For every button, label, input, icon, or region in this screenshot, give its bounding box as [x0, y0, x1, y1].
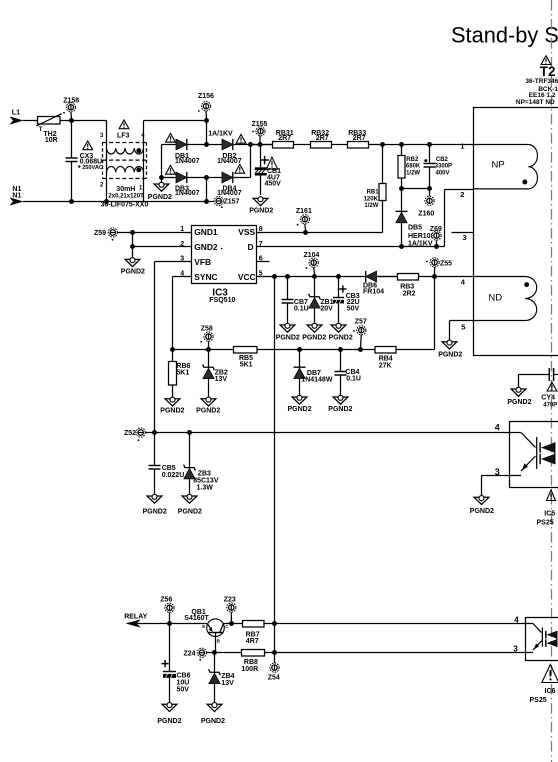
IC3 pin numbers	[180, 226, 262, 277]
resistor RB6 5K1	[169, 350, 177, 399]
label CB7 0.1U	[294, 299, 309, 312]
svg-text:Z104: Z104	[304, 252, 320, 259]
wire AC1 drop to bridge	[206, 121, 208, 145]
resistor RB2 680K 1/2W	[398, 145, 405, 189]
wire emitter	[170, 623, 208, 625]
svg-text:2x0.21x120T: 2x0.21x120T	[108, 193, 144, 199]
node RB1 tap	[380, 142, 385, 147]
ground PGND2 (ZB3)	[178, 494, 202, 515]
svg-text:ZB4: ZB4	[221, 673, 234, 680]
wire AC2 drop	[206, 178, 208, 202]
svg-text:CB2: CB2	[436, 157, 449, 163]
svg-text:450V: 450V	[265, 181, 282, 188]
IC6 LED	[546, 631, 557, 647]
label DB2 1N4007	[217, 153, 242, 165]
svg-text:RB8: RB8	[244, 659, 258, 666]
test point Z57	[353, 326, 366, 348]
resistor RB8 100R	[241, 650, 525, 673]
svg-text:VFB: VFB	[194, 257, 211, 267]
svg-text:Z23: Z23	[224, 596, 236, 603]
test point Z24	[197, 648, 206, 657]
svg-text:PGND2: PGND2	[329, 334, 353, 341]
node DB7 top	[297, 347, 302, 352]
svg-text:PS25: PS25	[537, 520, 554, 527]
input terminal L1 arrow	[10, 116, 24, 124]
ground PGND2 (CB4)	[328, 395, 352, 413]
svg-text:120K: 120K	[364, 196, 379, 202]
resistor RB3 2R2	[377, 274, 474, 281]
svg-text:PGND2: PGND2	[201, 718, 225, 725]
node Z23	[229, 621, 234, 626]
warning triangle CB1	[266, 157, 277, 169]
pin2 GND2 wire	[133, 246, 192, 248]
svg-text:NP=148T ND: NP=148T ND	[516, 99, 555, 106]
bottom AC wire N1 to Z157	[23, 201, 214, 203]
test point Z54	[270, 653, 279, 673]
svg-text:Z155: Z155	[252, 121, 268, 128]
label RB2 680K 1/2W	[406, 157, 421, 177]
svg-text:1N4007: 1N4007	[217, 190, 242, 197]
svg-text:13V: 13V	[221, 680, 234, 687]
wire L1 to TH2	[23, 120, 38, 122]
resistor RB33 2R7	[348, 130, 369, 148]
zener ZB1 20V	[309, 277, 321, 326]
ground PGND2 (IC5 pin3)	[470, 496, 494, 515]
label CB2 3300P 400V	[435, 157, 452, 177]
node at Z158/CX3 tap	[69, 118, 74, 123]
svg-text:PGND2: PGND2	[470, 508, 494, 515]
svg-text:Z156: Z156	[198, 93, 214, 100]
zener ZB4 13V	[209, 653, 221, 705]
label ZB1 20V	[320, 299, 333, 312]
svg-text:36-TRF346-: 36-TRF346-	[525, 78, 558, 85]
LF3 right rail (pins 4-1)	[144, 121, 207, 202]
svg-text:50V: 50V	[347, 305, 360, 312]
svg-text:Z160: Z160	[418, 211, 434, 218]
diode DB7 1N4148W	[294, 350, 306, 398]
warning triangle IC6	[542, 665, 558, 683]
svg-text:PGND2: PGND2	[143, 508, 167, 515]
node on N wire	[204, 199, 209, 204]
node VCC-relay riser	[272, 274, 277, 279]
capacitor CB6 10U 50V electrolytic	[163, 624, 176, 705]
node RB2 tap	[399, 142, 404, 147]
svg-text:PGND2: PGND2	[276, 334, 300, 341]
ground PGND2 (ZB1)	[302, 323, 326, 341]
svg-text:FSQ510: FSQ510	[209, 297, 235, 304]
node AC1 top	[204, 118, 209, 123]
node DB5 anode	[399, 244, 404, 249]
transistor QB1 S4160T	[202, 619, 229, 653]
node VCC riser on RB7 line	[272, 621, 277, 626]
svg-text:3: 3	[513, 644, 518, 653]
LF3 top winding	[107, 148, 144, 154]
ground PGND2 (IC3 GND)	[121, 258, 145, 276]
svg-text:2R2: 2R2	[403, 290, 416, 297]
svg-text:HER108: HER108	[408, 233, 435, 240]
NP winding	[474, 145, 538, 189]
resistor RB1 120K 1/2W (startup)	[379, 145, 386, 233]
warning triangle DB4	[235, 164, 245, 173]
node bridge plus	[248, 142, 253, 147]
svg-text:CY4: CY4	[541, 395, 555, 402]
svg-text:1N4007: 1N4007	[217, 158, 242, 165]
svg-text:Z157: Z157	[224, 199, 240, 206]
node bridge top center	[204, 142, 209, 147]
node CB1 tap	[258, 142, 263, 147]
zener ZB2 13V	[203, 350, 215, 399]
svg-text:PGND2: PGND2	[249, 207, 273, 214]
svg-text:4: 4	[495, 422, 500, 432]
svg-text:Z57: Z57	[355, 319, 367, 326]
label CB1 4U7 450V	[265, 168, 282, 188]
svg-text:36-LIF075-XX0: 36-LIF075-XX0	[101, 202, 149, 209]
node CB4 top	[338, 347, 343, 352]
capacitor CX3	[66, 158, 78, 202]
svg-text:1A/1KV: 1A/1KV	[208, 130, 233, 137]
label DB1 1N4007	[175, 153, 200, 165]
label CB6 10U 50V	[177, 672, 191, 693]
label RB1 120K 1/2W	[364, 190, 380, 210]
diode DB6 FR104	[366, 271, 377, 282]
svg-text:T2: T2	[540, 64, 556, 79]
node bridge minus	[159, 175, 164, 180]
node CX3 bottom	[69, 199, 74, 204]
label CB5 0.022U	[162, 465, 185, 479]
collector wire	[223, 623, 242, 625]
RELAY output arrow	[126, 619, 170, 627]
svg-text:T: T	[39, 127, 43, 133]
label DB4 1N4007	[217, 185, 242, 197]
label IC6 PS2561	[530, 688, 556, 704]
test point Z158	[63, 103, 75, 119]
svg-text:Stand-by Sec: Stand-by Sec	[451, 23, 558, 48]
thermistor TH2	[36, 114, 62, 133]
svg-text:D: D	[248, 242, 254, 252]
pin5 VCC wire	[257, 276, 398, 278]
svg-text:Z158: Z158	[63, 98, 79, 105]
label RB3 2R2	[400, 284, 415, 298]
ground PGND2 (ZB4)	[201, 703, 225, 725]
capacitor CB3 22U 50V electrolytic	[333, 277, 344, 326]
label DB7 1N4148W	[301, 370, 333, 384]
node bridge bottom center	[204, 175, 209, 180]
wire GND tie vertical	[132, 233, 134, 260]
svg-text:50V: 50V	[177, 686, 190, 693]
svg-text:PGND2: PGND2	[121, 268, 145, 275]
svg-text:3300P: 3300P	[435, 164, 452, 170]
page boundary dash-dot line	[551, 0, 553, 762]
label DB5 HER108 1A/1KV	[408, 225, 435, 248]
svg-text:Z55: Z55	[440, 260, 452, 267]
wire Z59 to pin1 GND1	[117, 232, 191, 234]
ground PGND2 (CB3)	[329, 323, 353, 341]
capacitor CB2 3300P 400V	[424, 145, 436, 189]
svg-text:1/2W: 1/2W	[364, 203, 378, 209]
svg-text:DB5: DB5	[408, 225, 422, 232]
capacitor CB4 0.1U	[335, 350, 347, 398]
svg-text:1.3W: 1.3W	[197, 485, 214, 492]
svg-text:PGND2: PGND2	[507, 399, 531, 406]
bridge bottom row wire	[162, 177, 251, 179]
svg-text:3: 3	[463, 233, 467, 242]
svg-text:0.1U: 0.1U	[346, 376, 361, 383]
svg-text:PGND2: PGND2	[288, 406, 312, 413]
LF3 dashed box	[103, 143, 147, 179]
IC3 box	[192, 226, 257, 284]
label TH2 10R	[43, 131, 57, 144]
wire to bridge ground	[161, 178, 163, 185]
test point Z161	[297, 215, 310, 231]
svg-text:CB6: CB6	[177, 672, 191, 679]
node Z57	[358, 347, 363, 352]
resistor RB7 4R7	[243, 621, 526, 646]
input terminal N1 arrow	[10, 197, 24, 205]
node ZB3 tap	[187, 430, 192, 435]
node Z69 tap	[434, 244, 439, 249]
resistor RB32 2R7	[311, 130, 332, 148]
svg-text:RELAY: RELAY	[124, 614, 147, 621]
label DB3 1N4007	[175, 185, 200, 197]
svg-text:Z58: Z58	[201, 326, 213, 333]
svg-text:4: 4	[514, 616, 519, 625]
svg-text:0.022U: 0.022U	[162, 472, 185, 479]
label ZB3 85C13V 1.3W	[193, 470, 219, 491]
svg-text:Z59: Z59	[94, 230, 106, 237]
test point Z55	[426, 258, 439, 275]
capacitor CB7 0.1U	[282, 277, 294, 326]
svg-text:L1: L1	[12, 110, 20, 117]
label CY4 470P	[541, 395, 557, 409]
test point Z157	[214, 196, 223, 205]
plus sign CB6	[162, 660, 169, 667]
label CB4 0.1U	[345, 369, 361, 382]
svg-text:2R7: 2R7	[278, 135, 291, 142]
svg-text:IC5: IC5	[544, 511, 555, 518]
pin6 stub	[257, 261, 270, 263]
IC6 phototransistor	[526, 624, 543, 653]
IC5 pin3 wire to ground	[482, 476, 510, 498]
svg-text:N1: N1	[12, 192, 21, 199]
test point Z160	[425, 189, 434, 206]
RB5 line wire	[173, 349, 234, 351]
LF3 left rail (pins 3-2)	[106, 121, 108, 202]
svg-text:PGND2: PGND2	[160, 407, 184, 414]
label DB6 FR104	[363, 282, 384, 295]
warning triangle LF3	[119, 120, 129, 129]
svg-text:100R: 100R	[241, 666, 258, 673]
svg-text:680K: 680K	[406, 164, 421, 170]
ground PGND2 (RB6)	[160, 397, 184, 414]
svg-text:2R7: 2R7	[316, 135, 329, 142]
IC3 pin names	[194, 227, 255, 282]
test point Z52	[136, 428, 145, 437]
svg-text:470P: 470P	[543, 402, 557, 408]
Z52 wire to IC5 pin4	[145, 432, 509, 434]
svg-text:Z52: Z52	[124, 430, 136, 437]
optocoupler IC6 box	[526, 618, 558, 661]
test point Z23	[227, 603, 236, 622]
VCC riser down to relay circuit	[274, 277, 276, 653]
svg-text:RB1: RB1	[367, 190, 380, 196]
svg-text:85C13V: 85C13V	[193, 478, 219, 485]
node SYNC bottom	[170, 347, 175, 352]
node clamp right	[427, 186, 432, 191]
node Z161 tap	[303, 230, 308, 235]
ground PGND2 (CB5)	[143, 494, 167, 515]
svg-text:5: 5	[461, 322, 465, 331]
node Z56/CB6	[167, 621, 172, 626]
test point Z59	[108, 228, 117, 237]
node GND2	[130, 244, 135, 249]
svg-text:27K: 27K	[379, 362, 392, 369]
pin3 VFB wire	[155, 262, 192, 433]
LF3 bottom winding	[107, 166, 144, 172]
svg-text:ND: ND	[488, 293, 502, 304]
ground PGND2 (bridge)	[154, 182, 169, 191]
plus sign CB1	[260, 156, 268, 164]
wire TH2 to LF3 pin3 (top wire)	[60, 120, 107, 122]
IC5 phototransistor	[510, 433, 537, 476]
node clamp left	[399, 186, 404, 191]
resistor RB5 5K1	[234, 347, 376, 369]
svg-text:PGND2: PGND2	[178, 508, 202, 515]
warning triangle DB1	[166, 133, 176, 142]
zener ZB3 85C13V 1.3W	[184, 433, 196, 497]
node ND pin4 tap	[432, 274, 437, 279]
svg-text:SYNC: SYNC	[194, 272, 217, 282]
B+ rail wire	[251, 144, 474, 146]
svg-text:1N4007: 1N4007	[175, 158, 200, 165]
warning triangle DB2	[236, 134, 246, 143]
svg-text:5K1: 5K1	[176, 370, 189, 377]
pin4 SYNC wire	[173, 277, 192, 350]
warning triangle T2	[541, 56, 551, 65]
svg-text:Z54: Z54	[268, 675, 280, 682]
node Z58	[206, 347, 211, 352]
svg-text:GND1: GND1	[194, 227, 218, 237]
test point Z58	[200, 332, 213, 347]
ground PGND2 (DB7)	[288, 395, 312, 413]
capacitor CB5 0.022U	[149, 433, 161, 497]
diode DB1 1N4007	[176, 139, 187, 150]
ground PGND2 (pin5)	[438, 321, 462, 359]
optocoupler IC5 box	[510, 422, 558, 488]
label RB6 5K1	[176, 363, 190, 377]
diode DB4 1N4007	[222, 172, 233, 183]
node Z104/ZB1 tap	[312, 274, 317, 279]
svg-text:E: E	[202, 624, 205, 629]
svg-text:FR104: FR104	[363, 289, 384, 296]
ground PGND2 (CB7)	[276, 323, 300, 341]
wire node to CX3	[71, 121, 73, 159]
bridge right rail	[250, 145, 252, 178]
svg-text:20V: 20V	[320, 305, 333, 312]
svg-text:Z69: Z69	[430, 226, 442, 233]
svg-text:PGND2: PGND2	[157, 718, 181, 725]
resistor RB31 2R7	[273, 130, 294, 148]
svg-text:ZB3: ZB3	[198, 470, 211, 477]
resistor RB4 27K	[375, 347, 435, 370]
svg-text:400V: 400V	[436, 170, 450, 176]
svg-text:4R7: 4R7	[246, 638, 259, 645]
label ZB2 13V	[215, 370, 228, 384]
capacitor CB1 4U7 450V electrolytic	[255, 145, 267, 196]
diode DB2 1N4007	[222, 139, 233, 150]
svg-text:1N4007: 1N4007	[175, 190, 200, 197]
pin7 D wire to drain net	[257, 190, 474, 247]
svg-text:IC6: IC6	[545, 688, 556, 695]
svg-text:VSS: VSS	[238, 227, 255, 237]
node CB7 tap	[285, 274, 290, 279]
bridge top row wire	[162, 144, 273, 146]
svg-text:PGND2: PGND2	[196, 407, 220, 414]
svg-text:NP: NP	[492, 159, 505, 170]
svg-text:10U: 10U	[177, 679, 190, 686]
label ZB4 13V	[221, 673, 234, 687]
plus sign CB3	[339, 285, 346, 292]
ND winding	[450, 277, 537, 321]
svg-text:2: 2	[460, 190, 464, 199]
bullet between RB2 and CB2	[424, 159, 427, 162]
diode DB3 1N4007	[176, 172, 187, 183]
label CX3 0.068U 250VAC	[78, 153, 103, 171]
svg-text:S4160T: S4160T	[184, 615, 209, 622]
test point Z155	[252, 127, 265, 143]
svg-text:PGND2: PGND2	[148, 194, 172, 201]
ground PGND2 (CB1)	[249, 197, 273, 215]
svg-text:LF3: LF3	[117, 133, 130, 140]
ground PGND2 (CB6)	[157, 703, 181, 725]
svg-text:EE16 1.2: EE16 1.2	[529, 92, 556, 99]
label IC5 PS2561	[537, 511, 556, 527]
clamp node wire (RB2/CB2 bottoms to DB5 cathode)	[402, 188, 432, 190]
svg-text:PGND2: PGND2	[328, 406, 352, 413]
svg-text:10R: 10R	[45, 137, 58, 144]
label N1 N1	[12, 186, 21, 200]
svg-text:PS25: PS25	[530, 697, 547, 704]
svg-text:Z161: Z161	[296, 208, 312, 215]
ground PGND2 (CY4)	[507, 375, 531, 406]
test point Z56	[165, 603, 174, 621]
svg-text:VCC: VCC	[238, 272, 256, 282]
LF3 pin numbers 3 4 2 1	[100, 133, 145, 192]
node Z54 on RB8 line	[272, 650, 277, 655]
test point Z104	[306, 258, 319, 275]
label QB1 S4160T	[184, 609, 209, 622]
svg-text:30mH: 30mH	[116, 186, 135, 193]
node base	[212, 650, 217, 655]
diode DB5 HER108 clamp	[396, 189, 408, 247]
svg-text:RB2: RB2	[406, 157, 419, 163]
warning triangle IC5	[547, 490, 556, 501]
warning triangle DB3	[166, 165, 176, 174]
node CB3 tap	[336, 274, 341, 279]
svg-text:1: 1	[460, 142, 464, 151]
svg-text:GND2: GND2	[194, 242, 218, 252]
riser pin4 to RB4 line	[434, 277, 436, 350]
T2 box	[474, 108, 558, 356]
test point Z69	[432, 231, 441, 247]
node CB2 tap	[427, 142, 432, 147]
svg-text:5K1: 5K1	[240, 362, 253, 369]
IC5 LED	[540, 442, 555, 464]
svg-text:Z56: Z56	[160, 596, 172, 603]
node LF3 pin2	[104, 199, 109, 204]
svg-text:250VAC: 250VAC	[82, 165, 103, 171]
label CB3 22U 50V	[346, 293, 360, 313]
svg-text:1/2W: 1/2W	[406, 170, 420, 176]
